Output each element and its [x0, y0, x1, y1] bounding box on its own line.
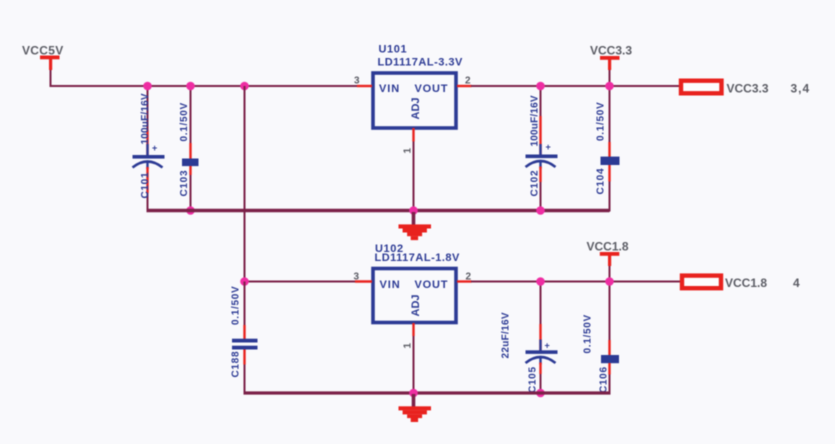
capacitor C106 [583, 282, 620, 395]
capacitor C103 [179, 86, 199, 211]
svg-text:4: 4 [793, 276, 800, 290]
svg-text:+: + [545, 341, 550, 351]
svg-text:VCC1.8: VCC1.8 [587, 240, 629, 254]
svg-text:C106: C106 [599, 366, 610, 393]
pin 2 U102 [457, 280, 472, 282]
svg-text:VOUT: VOUT [415, 83, 449, 95]
wire U102 ADJ to ground bus 2 [413, 336, 415, 393]
svg-text:VCC3.3: VCC3.3 [590, 44, 632, 58]
junction node C101/top rail [143, 82, 152, 91]
svg-text:2: 2 [466, 272, 472, 283]
svg-text:C101: C101 [140, 172, 151, 199]
junction node C105/ground bus 2 [536, 389, 545, 398]
junction node C103/ground bus [186, 206, 195, 215]
capacitor C105 [501, 282, 558, 394]
capacitor C188 [231, 282, 258, 395]
wire U102 input [245, 281, 356, 283]
svg-text:0.1/50V: 0.1/50V [583, 314, 594, 353]
svg-text:2: 2 [465, 76, 471, 87]
svg-text:U101: U101 [379, 44, 408, 56]
svg-text:ADJ: ADJ [410, 294, 422, 316]
svg-text:+: + [152, 143, 157, 153]
svg-text:0.1/50V: 0.1/50V [179, 102, 190, 141]
capacitor C101 [133, 86, 165, 211]
junction node C102/ground bus [536, 206, 545, 215]
port VCC3.3 [681, 81, 810, 96]
junction node ground bus 2 / U102 ADJ [409, 389, 418, 398]
junction node C103/top rail [186, 82, 195, 91]
svg-text:1: 1 [403, 343, 414, 349]
ground [399, 212, 432, 240]
power symbol VCC1.8 [587, 240, 629, 282]
pin 1 U102 [412, 323, 414, 336]
svg-text:100uF/16V: 100uF/16V [530, 95, 541, 146]
svg-text:C188: C188 [231, 351, 242, 378]
svg-text:ADJ: ADJ [410, 97, 422, 119]
pin 3 U102 [355, 280, 372, 282]
svg-text:100uF/16V: 100uF/16V [140, 93, 151, 144]
op-amp U102 [373, 243, 460, 323]
svg-text:VCC5V: VCC5V [22, 44, 64, 58]
op-amp U101 [373, 44, 463, 129]
svg-text:VIN: VIN [379, 83, 400, 95]
junction node VCC3.3/rail [605, 82, 614, 91]
junction node C105/rail [536, 277, 545, 286]
svg-text:22uF/16V: 22uF/16V [501, 312, 512, 358]
junction node VCC1.8/rail [605, 277, 614, 286]
svg-text:C105: C105 [528, 366, 539, 393]
power symbol VCC3.3 [590, 44, 632, 87]
pin 3 U101 [357, 85, 372, 87]
wire VCC5V top rail [50, 85, 358, 87]
svg-text:VIN: VIN [380, 279, 401, 291]
svg-text:VOUT: VOUT [415, 279, 449, 291]
svg-text:C104: C104 [596, 168, 607, 195]
capacitor C102 [526, 86, 558, 211]
wire U101 ADJ to ground bus [413, 142, 415, 212]
junction node feed/U102 input [240, 277, 249, 286]
pin 2 U101 [457, 85, 472, 87]
junction node ground bus / U101 ADJ [409, 206, 418, 215]
port VCC1.8 [682, 276, 800, 290]
capacitor C104 [596, 86, 620, 212]
svg-text:+: + [546, 142, 551, 152]
wire ground bus 2 [244, 391, 611, 394]
svg-text:3: 3 [354, 272, 360, 283]
svg-text:LD1117AL-3.3V: LD1117AL-3.3V [378, 57, 464, 69]
power symbol VCC5V [22, 44, 64, 71]
ground [399, 394, 432, 422]
svg-text:VCC3.3: VCC3.3 [727, 82, 769, 96]
svg-text:0.1/50V: 0.1/50V [231, 286, 242, 325]
svg-text:C102: C102 [530, 170, 541, 197]
svg-text:1: 1 [403, 148, 414, 154]
junction node C102/rail [536, 82, 545, 91]
junction node feed to U102 [240, 82, 249, 91]
svg-text:C103: C103 [179, 170, 190, 197]
wire VCC5V vertical drop [50, 70, 52, 87]
wire VOUT rail 1.8V [471, 281, 680, 283]
wire vertical feed VCC5V to U102 [244, 86, 246, 282]
svg-text:3,4: 3,4 [791, 82, 811, 96]
svg-text:0.1/50V: 0.1/50V [596, 102, 607, 141]
wire ground bus 1 [147, 209, 610, 212]
svg-text:3: 3 [354, 76, 360, 87]
svg-text:VCC1.8: VCC1.8 [725, 276, 767, 290]
svg-text:LD1117AL-1.8V: LD1117AL-1.8V [375, 252, 461, 264]
wire VOUT rail 3.3V [471, 85, 679, 87]
pin 1 U101 [412, 128, 414, 142]
